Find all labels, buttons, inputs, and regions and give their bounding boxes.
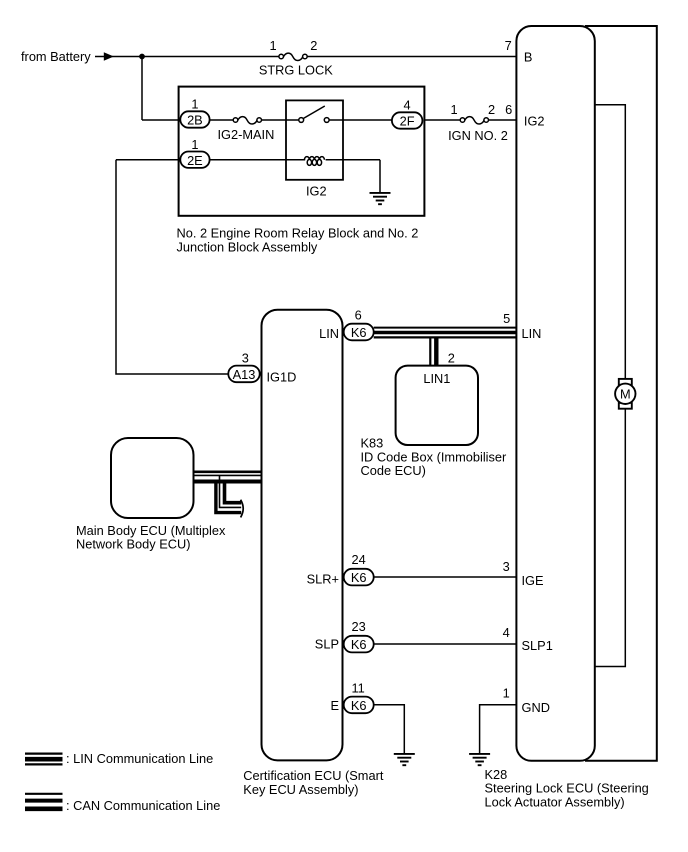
svg-text:K83: K83 (361, 436, 384, 451)
svg-text:: CAN Communication Line: : CAN Communication Line (66, 798, 220, 813)
svg-text:K6: K6 (351, 637, 367, 652)
svg-text:2: 2 (310, 38, 317, 53)
svg-text:24: 24 (352, 552, 366, 567)
wire: 2B row (142, 119, 299, 121)
svg-text:A13: A13 (233, 367, 256, 382)
wire: 2E coil row (116, 159, 380, 161)
svg-text:STRG LOCK: STRG LOCK (259, 62, 333, 77)
connector K6 (SLR+ row) (374, 576, 517, 578)
wire: outer loop from B row around right side (585, 26, 657, 761)
fuse IG2-MAIN (233, 117, 261, 124)
svg-text:5: 5 (503, 311, 510, 326)
connector 2B (180, 111, 209, 127)
ECU: Certification ECU box (262, 310, 343, 761)
svg-text:K6: K6 (351, 325, 367, 340)
svg-text:1: 1 (191, 97, 198, 112)
svg-text:Steering Lock ECU (Steering: Steering Lock ECU (Steering (485, 781, 649, 796)
svg-text:2: 2 (448, 351, 455, 366)
svg-text:No. 2 Engine Room Relay Block: No. 2 Engine Room Relay Block and No. 2 (177, 225, 419, 240)
legend: LIN communication line sample (25, 754, 63, 765)
svg-text:SLP1: SLP1 (522, 638, 553, 653)
svg-text:LIN: LIN (522, 326, 542, 341)
svg-text:K6: K6 (351, 570, 367, 585)
svg-text:2B: 2B (187, 113, 203, 128)
wire: 2F to IG2 terminal (424, 119, 516, 121)
wire: CAN communication line to certification ECU (194, 472, 262, 482)
connector 2E (180, 152, 209, 168)
wire: GND to ground (480, 705, 517, 754)
svg-text:IGE: IGE (522, 573, 544, 588)
connector K6 (SLP row) (374, 643, 517, 645)
svg-text:GND: GND (522, 700, 550, 715)
svg-text:K28: K28 (485, 767, 508, 782)
ground: relay coil ground (379, 160, 381, 193)
svg-text:1: 1 (450, 102, 457, 117)
svg-text:6: 6 (505, 102, 512, 117)
svg-text:IG2: IG2 (524, 114, 545, 129)
connector 2F (392, 112, 423, 128)
svg-text:Certification ECU (Smart: Certification ECU (Smart (243, 768, 384, 783)
wire: motor branch (595, 105, 626, 667)
svg-text:IG2: IG2 (306, 184, 327, 199)
svg-text:1: 1 (503, 686, 510, 701)
svg-text:SLP: SLP (315, 636, 339, 651)
svg-text:Main Body ECU (Multiplex: Main Body ECU (Multiplex (76, 523, 226, 538)
svg-text:Code ECU): Code ECU) (361, 463, 426, 478)
connector A13 (228, 366, 259, 383)
svg-text:4: 4 (503, 625, 510, 640)
svg-text:: LIN Communication Line: : LIN Communication Line (66, 751, 213, 766)
connector K6 (E row) (344, 697, 374, 714)
ECU: Main Body ECU box (111, 438, 194, 518)
wire: CAN branch stub with continuation hook (216, 476, 243, 517)
svg-text:3: 3 (503, 559, 510, 574)
svg-text:from Battery: from Battery (21, 49, 91, 64)
arrow: from Battery (104, 52, 114, 61)
svg-text:2E: 2E (187, 153, 203, 168)
svg-text:Key ECU Assembly): Key ECU Assembly) (243, 782, 358, 797)
svg-text:23: 23 (352, 619, 366, 634)
motor M (615, 379, 635, 409)
svg-text:M: M (620, 387, 631, 402)
svg-text:1: 1 (191, 137, 198, 152)
junction block: No.2 Engine Room Relay Block box (179, 87, 425, 216)
svg-text:3: 3 (242, 351, 249, 366)
svg-text:Junction Block Assembly: Junction Block Assembly (177, 239, 318, 254)
svg-text:LIN: LIN (319, 326, 339, 341)
svg-text:K6: K6 (351, 698, 367, 713)
svg-text:4: 4 (404, 98, 411, 113)
wire: E to ground (374, 705, 405, 754)
svg-text:IG2-MAIN: IG2-MAIN (217, 127, 274, 142)
svg-text:1: 1 (269, 38, 276, 53)
wire: from battery feed to terminal B (95, 56, 516, 58)
svg-text:2F: 2F (400, 114, 415, 129)
legend: CAN communication line sample (25, 794, 63, 809)
svg-text:7: 7 (505, 38, 512, 53)
fuse STRG LOCK (279, 53, 307, 60)
ground: K28 ground (469, 754, 490, 765)
svg-text:SLR+: SLR+ (307, 571, 339, 586)
ECU K28: Steering Lock ECU box (516, 26, 594, 761)
svg-text:11: 11 (352, 681, 365, 696)
svg-text:2: 2 (488, 102, 495, 117)
ECU K83: ID Code Box (396, 366, 478, 445)
node: junction on battery feed (139, 54, 145, 60)
svg-text:B: B (524, 49, 533, 64)
wire: 2E to A13 (IG1D feed) (116, 160, 228, 374)
svg-text:Network Body ECU): Network Body ECU) (76, 537, 191, 552)
svg-text:E: E (330, 698, 339, 713)
svg-text:IG1D: IG1D (267, 370, 297, 385)
svg-text:IGN NO. 2: IGN NO. 2 (448, 128, 508, 143)
connector K6 pin 6 (LIN) (344, 324, 374, 341)
relay IG2 box (286, 100, 343, 179)
svg-text:LIN1: LIN1 (423, 371, 450, 386)
wire: junction down to relay block pin 2B (141, 57, 143, 121)
relay coil (304, 157, 324, 166)
svg-text:Lock Actuator Assembly): Lock Actuator Assembly) (485, 794, 625, 809)
wire: LIN communication line K6 to K28 (374, 328, 517, 338)
relay switch contacts (299, 106, 392, 122)
wire: LIN branch to ID code box (429, 338, 431, 365)
ground: certification ECU ground (394, 754, 415, 765)
svg-text:6: 6 (355, 308, 362, 323)
fuse IGN NO. 2 (460, 117, 488, 124)
